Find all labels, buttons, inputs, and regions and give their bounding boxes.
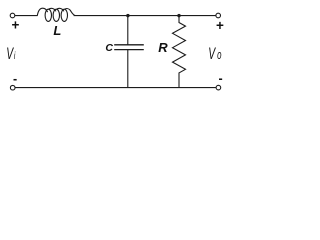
svg-text:Vo: Vo bbox=[208, 45, 221, 63]
svg-text:-: - bbox=[219, 72, 223, 86]
svg-text:L: L bbox=[53, 23, 61, 38]
svg-text:C: C bbox=[105, 42, 113, 54]
svg-text:+: + bbox=[216, 18, 224, 33]
svg-text:-: - bbox=[13, 72, 17, 86]
svg-text:Vi: Vi bbox=[6, 44, 16, 62]
svg-text:+: + bbox=[12, 18, 20, 33]
svg-text:R: R bbox=[158, 40, 168, 55]
